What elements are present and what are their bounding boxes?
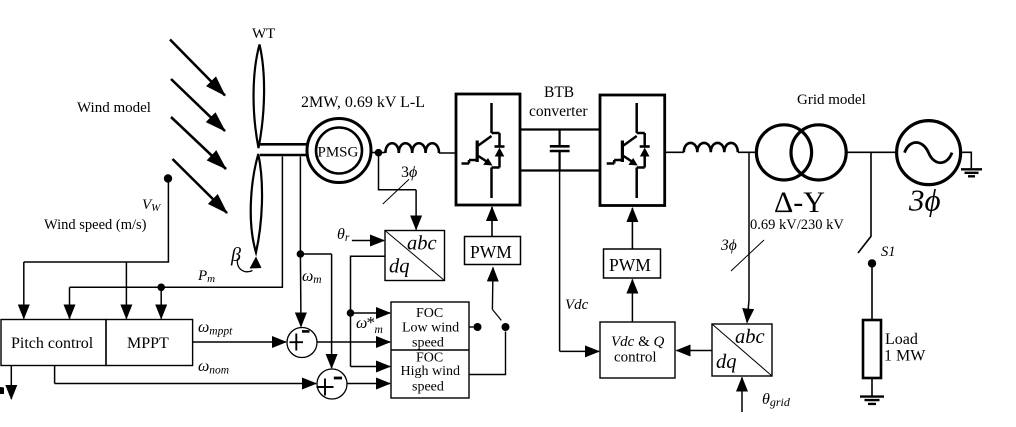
svg-text:0.69 kV/230 kV: 0.69 kV/230 kV (750, 217, 844, 233)
svg-text:WT: WT (252, 26, 275, 42)
svg-text:ωnom: ωnom (198, 358, 229, 377)
svg-text:S1: S1 (881, 244, 896, 260)
svg-text:Load: Load (885, 331, 918, 348)
svg-text:FOC: FOC (416, 306, 443, 321)
svg-text:High wind: High wind (401, 364, 461, 379)
svg-text:VW: VW (142, 197, 161, 214)
svg-text:converter: converter (529, 103, 588, 120)
svg-text:Low wind: Low wind (402, 321, 459, 336)
svg-text:1 MW: 1 MW (884, 348, 926, 365)
svg-text:abc: abc (407, 233, 437, 255)
svg-text:PWM: PWM (609, 255, 651, 275)
svg-text:θgrid: θgrid (762, 391, 791, 409)
svg-text:Vdc: Vdc (565, 297, 589, 313)
svg-text:Pitch control: Pitch control (11, 335, 94, 352)
svg-text:MPPT: MPPT (127, 335, 169, 352)
svg-text:ωmppt: ωmppt (198, 319, 233, 338)
svg-text:BTB: BTB (544, 84, 574, 101)
svg-text:speed: speed (412, 380, 444, 395)
svg-text:speed: speed (412, 336, 444, 351)
svg-text:3ϕ: 3ϕ (401, 164, 417, 181)
svg-text:Grid model: Grid model (797, 92, 866, 108)
svg-text:2MW, 0.69 kV L-L: 2MW, 0.69 kV L-L (301, 94, 425, 111)
svg-text:Wind speed (m/s): Wind speed (m/s) (44, 217, 147, 233)
svg-text:m: m (375, 324, 383, 336)
svg-text:Pm: Pm (197, 268, 215, 285)
svg-text:dq: dq (716, 351, 737, 373)
svg-text:3ϕ: 3ϕ (908, 183, 941, 218)
svg-text:dq: dq (389, 256, 410, 278)
svg-text:ωm: ωm (302, 268, 322, 286)
svg-text:PMSG: PMSG (318, 145, 359, 161)
svg-text:Wind model: Wind model (77, 100, 151, 116)
svg-text:Vdc & Q: Vdc & Q (611, 334, 665, 350)
svg-text:3ϕ: 3ϕ (720, 237, 737, 254)
svg-text:θr: θr (337, 226, 350, 244)
svg-text:abc: abc (735, 326, 765, 348)
svg-text:PWM: PWM (470, 242, 512, 262)
svg-text:Δ-Y: Δ-Y (774, 186, 825, 219)
svg-text:control: control (614, 350, 657, 366)
svg-text:β: β (230, 244, 241, 266)
